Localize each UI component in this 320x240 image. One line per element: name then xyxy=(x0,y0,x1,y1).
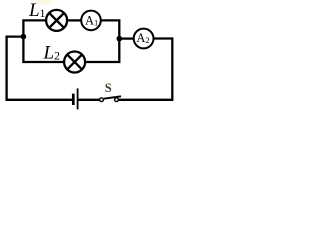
ammeter A2 xyxy=(134,29,154,49)
wire from left node down and right to lamp L2 xyxy=(23,37,64,62)
wire left vertical + top-left horizontal to node xyxy=(7,37,24,100)
wire battery to switch xyxy=(79,99,100,101)
lamp L1 xyxy=(46,10,67,31)
svg-text:S: S xyxy=(105,81,112,95)
svg-text:A1: A1 xyxy=(85,13,98,27)
battery: short thick negative plate xyxy=(72,94,75,105)
node junction left xyxy=(21,34,27,40)
wire switch to bottom right xyxy=(119,99,174,101)
wire bottom left segment xyxy=(6,99,73,101)
svg-text:A2: A2 xyxy=(136,31,149,45)
wire node to ammeter A2 xyxy=(119,37,134,39)
node junction right xyxy=(117,36,123,42)
switch S: right contact xyxy=(115,98,119,102)
lamp L2 xyxy=(64,52,85,73)
wire lamp L1 to ammeter A1 xyxy=(67,19,81,21)
faint highlight smudge xyxy=(35,0,52,5)
wire A2 right then down right side xyxy=(154,39,173,100)
svg-text:L2: L2 xyxy=(43,42,61,63)
wire A1 right then down to node xyxy=(101,20,120,38)
wire from left node up and right to lamp L1 xyxy=(23,20,46,36)
switch S: lever xyxy=(104,96,121,98)
wire lamp L2 right then up to node xyxy=(85,39,119,62)
battery: long thin positive plate xyxy=(77,88,79,109)
ammeter A1 xyxy=(81,11,101,31)
switch S: left contact xyxy=(100,98,104,102)
